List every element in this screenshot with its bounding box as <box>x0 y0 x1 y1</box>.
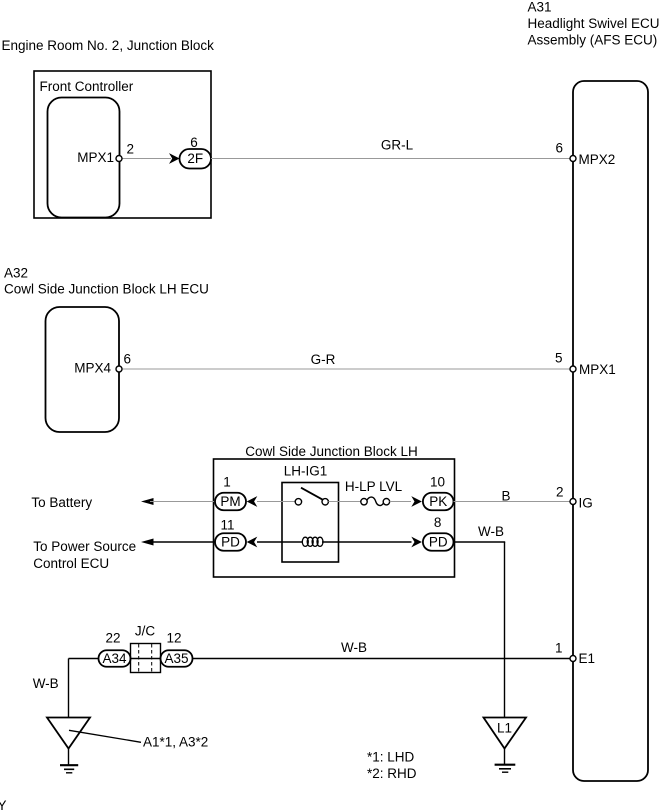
svg-text:Control ECU: Control ECU <box>33 556 109 571</box>
svg-text:PD: PD <box>221 535 240 550</box>
svg-text:J/C: J/C <box>135 624 156 639</box>
svg-text:W-B: W-B <box>478 524 504 539</box>
svg-text:12: 12 <box>166 631 181 646</box>
svg-text:2F: 2F <box>187 151 203 166</box>
svg-text:22: 22 <box>105 631 120 646</box>
svg-text:Y: Y <box>0 798 7 810</box>
svg-text:A31: A31 <box>528 0 552 15</box>
svg-text:11: 11 <box>220 518 234 533</box>
svg-text:Cowl Side Junction Block LH EC: Cowl Side Junction Block LH ECU <box>4 282 209 297</box>
svg-text:1: 1 <box>223 475 231 490</box>
svg-text:LH-IG1: LH-IG1 <box>284 464 328 479</box>
svg-text:8: 8 <box>434 515 442 530</box>
svg-text:W-B: W-B <box>33 676 59 691</box>
svg-text:5: 5 <box>555 351 563 366</box>
svg-text:10: 10 <box>430 475 445 490</box>
svg-text:Front Controller: Front Controller <box>40 79 134 94</box>
svg-text:Assembly (AFS ECU): Assembly (AFS ECU) <box>528 33 658 48</box>
svg-text:E1: E1 <box>579 651 596 666</box>
svg-text:*2: RHD: *2: RHD <box>367 766 417 781</box>
svg-text:2: 2 <box>127 142 135 157</box>
svg-text:A35: A35 <box>164 651 188 666</box>
svg-text:G-R: G-R <box>311 352 336 367</box>
svg-text:6: 6 <box>190 135 198 150</box>
svg-text:L1: L1 <box>497 721 512 736</box>
svg-text:GR-L: GR-L <box>381 138 414 153</box>
svg-text:Cowl Side Junction Block LH: Cowl Side Junction Block LH <box>245 444 418 459</box>
svg-text:PD: PD <box>429 535 448 550</box>
svg-text:PM: PM <box>220 494 240 509</box>
svg-text:B: B <box>501 489 510 504</box>
svg-text:2: 2 <box>556 485 564 500</box>
svg-text:To Battery: To Battery <box>31 495 92 510</box>
svg-text:IG: IG <box>579 496 593 511</box>
svg-text:Headlight Swivel ECU: Headlight Swivel ECU <box>528 16 660 31</box>
svg-text:H-LP LVL: H-LP LVL <box>345 479 403 494</box>
svg-text:*1: LHD: *1: LHD <box>367 750 415 765</box>
svg-text:A32: A32 <box>4 266 28 281</box>
svg-text:PK: PK <box>429 494 447 509</box>
svg-text:Engine Room No. 2, Junction Bl: Engine Room No. 2, Junction Block <box>2 38 215 53</box>
svg-text:W-B: W-B <box>341 640 367 655</box>
svg-text:6: 6 <box>124 352 132 367</box>
svg-text:1: 1 <box>555 641 563 656</box>
svg-text:MPX4: MPX4 <box>74 361 111 376</box>
svg-text:6: 6 <box>555 141 563 156</box>
svg-text:MPX2: MPX2 <box>579 152 616 167</box>
svg-text:MPX1: MPX1 <box>579 362 616 377</box>
svg-text:A1*1, A3*2: A1*1, A3*2 <box>143 735 208 750</box>
svg-text:A34: A34 <box>102 651 127 666</box>
svg-text:To Power Source: To Power Source <box>33 539 136 554</box>
svg-text:MPX1: MPX1 <box>77 150 114 165</box>
